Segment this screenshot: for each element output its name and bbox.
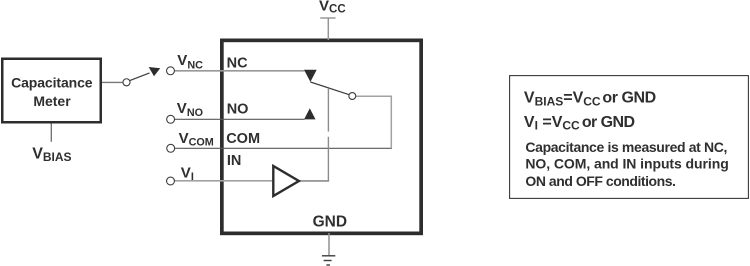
svg-text:ON and OFF conditions.: ON and OFF conditions. bbox=[525, 173, 675, 189]
svg-text:VI: VI bbox=[181, 164, 194, 183]
svg-text:VCC: VCC bbox=[319, 0, 346, 15]
svg-text:VI =VCC or GND: VI =VCC or GND bbox=[524, 114, 635, 133]
svg-text:GND: GND bbox=[313, 214, 347, 231]
svg-text:VNC: VNC bbox=[177, 52, 203, 71]
svg-text:NO: NO bbox=[227, 101, 249, 117]
svg-text:NO, COM, and IN inputs during: NO, COM, and IN inputs during bbox=[525, 156, 728, 172]
svg-text:VBIAS: VBIAS bbox=[32, 145, 71, 164]
svg-text:Capacitance: Capacitance bbox=[11, 75, 93, 91]
svg-text:Capacitance is measured at NC,: Capacitance is measured at NC, bbox=[525, 139, 727, 155]
svg-text:VNO: VNO bbox=[177, 100, 203, 119]
svg-text:NC: NC bbox=[227, 55, 248, 71]
svg-text:COM: COM bbox=[226, 131, 260, 147]
svg-text:VCOM: VCOM bbox=[179, 130, 214, 148]
svg-text:IN: IN bbox=[227, 153, 242, 169]
svg-text:Meter: Meter bbox=[33, 93, 71, 109]
